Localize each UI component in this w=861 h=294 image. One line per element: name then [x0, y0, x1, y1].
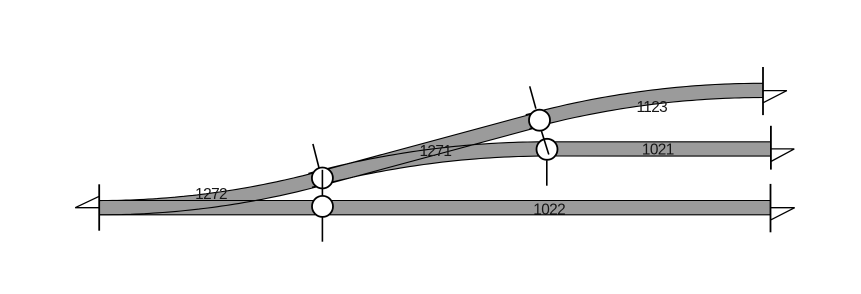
track 1272 curve band (gray fill)	[99, 177, 326, 208]
switch W1 vertical line through upper circle to lower circle	[321, 170, 323, 196]
track 1271 top edge	[321, 113, 538, 172]
switch W1 vertical line below lower circle	[321, 218, 323, 242]
track 1021 end marker flag horizontal	[771, 148, 794, 150]
svg-text:1021: 1021	[642, 142, 674, 159]
track 1021 top edge	[308, 142, 771, 174]
track 1123 bottom edge	[529, 98, 763, 129]
svg-text:1022: 1022	[533, 201, 565, 218]
track 1021 end marker vertical line	[770, 126, 772, 170]
switch W2 lower circle	[537, 139, 558, 160]
switch W2 tilted line from upper circle into lower circle	[542, 131, 549, 154]
track 1021 end marker flag diagonal	[771, 149, 794, 162]
track 1022 end marker flag diagonal	[771, 208, 795, 220]
track 1123 curve band (gray fill)	[528, 90, 764, 121]
track 1022 bottom edge	[99, 214, 770, 216]
switch W1 tick line above upper circle	[313, 144, 319, 168]
track 1123 end marker flag horizontal	[763, 90, 787, 92]
left track end marker flag horizontal	[75, 207, 99, 209]
track 1022 end marker flag horizontal	[771, 207, 795, 209]
track 1022 band (gray fill)	[99, 201, 770, 215]
track 1021 bottom edge	[312, 156, 771, 187]
track 1021 band with link curve (gray fill)	[310, 149, 771, 180]
switch W2 tick line above upper circle	[530, 86, 536, 108]
track 1123 end marker vertical line	[762, 67, 764, 115]
track 1271 bottom edge	[324, 126, 541, 185]
track 1022 top edge	[99, 200, 770, 202]
switch W2 vertical line below lower circle	[546, 161, 548, 186]
switch W2 upper circle	[529, 110, 550, 131]
track 1123 end marker flag diagonal	[763, 91, 787, 103]
track 1022 end marker vertical line	[770, 184, 772, 232]
left track end marker flag diagonal	[75, 196, 99, 207]
svg-text:1272: 1272	[195, 186, 227, 203]
track 1272 bottom edge	[99, 184, 328, 215]
track 1271 diagonal band (gray fill)	[322, 119, 539, 178]
track 1123 top edge	[526, 83, 763, 114]
svg-text:1271: 1271	[419, 143, 451, 160]
switch W1 upper circle	[312, 168, 333, 189]
svg-text:1123: 1123	[636, 99, 667, 116]
switch W1 lower circle	[312, 196, 333, 217]
left track end marker vertical line	[98, 184, 100, 230]
track 1272 top edge	[99, 170, 324, 201]
